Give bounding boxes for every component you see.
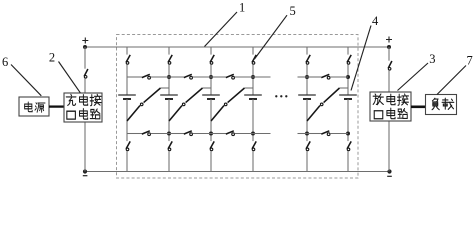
wire: upper bus to battery B4	[252, 77, 254, 95]
wire: lower bus toward ellipsis (left)	[253, 133, 271, 135]
leader line for label 7	[437, 66, 466, 95]
node: lower bus junction x=211	[209, 132, 213, 136]
top parallel switch column 5	[306, 47, 310, 77]
wire: upper bus toward ellipsis (left)	[253, 76, 271, 78]
leader line for label 3	[398, 63, 429, 91]
node: charge - terminal junction	[83, 169, 87, 173]
wire: battery B5 to lower bus	[306, 99, 308, 134]
bottom parallel switch column 2	[168, 134, 172, 172]
power source box (6)	[19, 97, 49, 116]
svg-text:7: 7	[467, 53, 473, 67]
wire: discharge circuit to bottom rail	[388, 121, 390, 172]
upper bus switch between 169 and 211	[169, 74, 211, 79]
lower bus switch between 307 and 348	[307, 131, 348, 136]
upper bus switch between 211 and 253	[211, 74, 253, 79]
label: + (charge side)	[82, 38, 88, 44]
ellipsis: more cells	[275, 95, 287, 97]
node: charge + terminal junction	[83, 45, 87, 49]
battery cell B1	[118, 95, 136, 99]
wire: upper bus to battery B2	[168, 77, 170, 95]
svg-text:1: 1	[239, 0, 245, 14]
node: lower bus junction x=253	[251, 132, 255, 136]
wire: upper bus to battery B5	[306, 77, 308, 95]
svg-text:5: 5	[290, 4, 296, 18]
battery cell B6	[339, 95, 357, 99]
connector discharge circuit to load	[411, 106, 426, 109]
bottom parallel switch column 3	[210, 134, 214, 172]
node: lower bus junction x=169	[167, 132, 171, 136]
wire: battery B2 to lower bus	[168, 99, 170, 134]
node: upper bus junction x=169	[167, 75, 171, 79]
charge feed switch (left vertical)	[84, 47, 88, 93]
bottom parallel switch column 6	[347, 134, 351, 172]
node: lower bus junction x=348	[346, 132, 350, 136]
svg-text:4: 4	[372, 14, 379, 28]
wire: upper bus to battery B6	[347, 77, 349, 95]
bottom parallel switch column 1	[126, 134, 130, 172]
discharging interface circuit box (3)	[370, 92, 411, 121]
node: upper bus junction x=253	[251, 75, 255, 79]
battery cell B5	[298, 95, 316, 99]
svg-text:6: 6	[2, 55, 8, 69]
top parallel switch column 3	[210, 47, 214, 77]
label: - (discharge side)	[387, 175, 392, 177]
battery pack dashed boundary (1)	[117, 35, 359, 179]
series connect switch diagonal 307-348 (4)	[307, 88, 348, 121]
wire: upper bus to battery B1	[126, 77, 128, 95]
wire: battery B1 to lower bus	[126, 99, 128, 134]
wire: upper bus toward ellipsis (right)	[298, 76, 308, 78]
label: - (charge side)	[83, 175, 88, 177]
leader line for label 5	[255, 15, 288, 59]
wire: lower bus toward ellipsis (right)	[298, 133, 308, 135]
series connect switch diagonal 211-253 (4)	[211, 88, 253, 121]
svg-text:2: 2	[49, 51, 55, 65]
node: upper bus junction x=211	[209, 75, 213, 79]
node: upper bus junction x=348	[346, 75, 350, 79]
top parallel switch column 2	[168, 47, 172, 77]
top parallel switch column 6	[347, 47, 351, 77]
wire: bottom negative rail	[85, 171, 390, 173]
lower bus switch between 169 and 211	[169, 131, 211, 136]
series connect switch diagonal 127-169 (4)	[127, 88, 169, 121]
wire: battery B4 to lower bus	[252, 99, 254, 134]
upper bus switch between 307 and 348	[307, 74, 348, 79]
battery cell B4	[244, 95, 262, 99]
node: lower bus junction x=307	[305, 132, 309, 136]
battery cell B3	[202, 95, 220, 99]
load box (7)	[426, 95, 457, 115]
node: discharge + terminal junction	[387, 45, 391, 49]
node: upper bus junction x=307	[305, 75, 309, 79]
node: discharge - terminal junction	[387, 169, 391, 173]
wire: top positive rail	[85, 46, 389, 48]
leader line for label 6	[11, 65, 41, 96]
upper bus switch between 127 and 169	[127, 74, 169, 79]
bottom parallel switch column 5	[306, 134, 310, 172]
leader line for label 1	[205, 12, 238, 47]
top parallel switch column 1	[126, 47, 130, 77]
bottom parallel switch column 4	[252, 134, 256, 172]
series connect switch diagonal 169-211 (4)	[169, 88, 211, 121]
leader line for label 4	[351, 26, 371, 91]
lower bus switch between 211 and 253	[211, 131, 253, 136]
svg-text:3: 3	[429, 52, 435, 66]
discharge feed switch (right vertical)	[388, 47, 392, 92]
top parallel switch column 4	[252, 47, 256, 77]
leader line for label 2	[59, 62, 81, 93]
label: + (discharge side)	[386, 37, 392, 43]
charging interface circuit box (2)	[64, 93, 102, 122]
wire: upper bus to battery B3	[210, 77, 212, 95]
wire: battery B3 to lower bus	[210, 99, 212, 134]
connector power to charging circuit	[49, 105, 64, 107]
wire: battery B6 to lower bus	[347, 99, 349, 134]
battery cell B2	[160, 95, 178, 99]
lower bus switch between 127 and 169	[127, 131, 169, 136]
wire: charging circuit to bottom rail	[84, 122, 86, 172]
